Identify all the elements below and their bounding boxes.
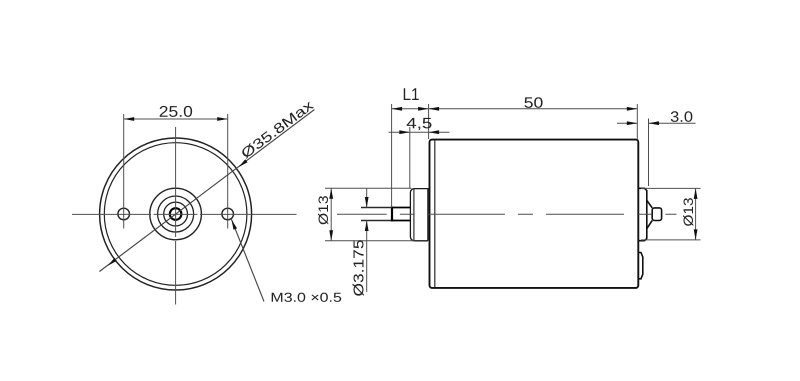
svg-text:M3.0 ×0.5: M3.0 ×0.5 (270, 290, 342, 305)
svg-text:4,5: 4,5 (406, 115, 432, 132)
svg-text:L1: L1 (402, 85, 419, 104)
svg-text:Ø13: Ø13 (680, 197, 696, 226)
svg-text:25.0: 25.0 (159, 104, 193, 121)
svg-text:Ø3.175: Ø3.175 (352, 240, 368, 297)
svg-text:50: 50 (524, 95, 544, 112)
svg-text:Ø13: Ø13 (315, 195, 331, 225)
svg-text:Ø35.8Max: Ø35.8Max (238, 97, 316, 162)
svg-text:3.0: 3.0 (670, 109, 693, 126)
